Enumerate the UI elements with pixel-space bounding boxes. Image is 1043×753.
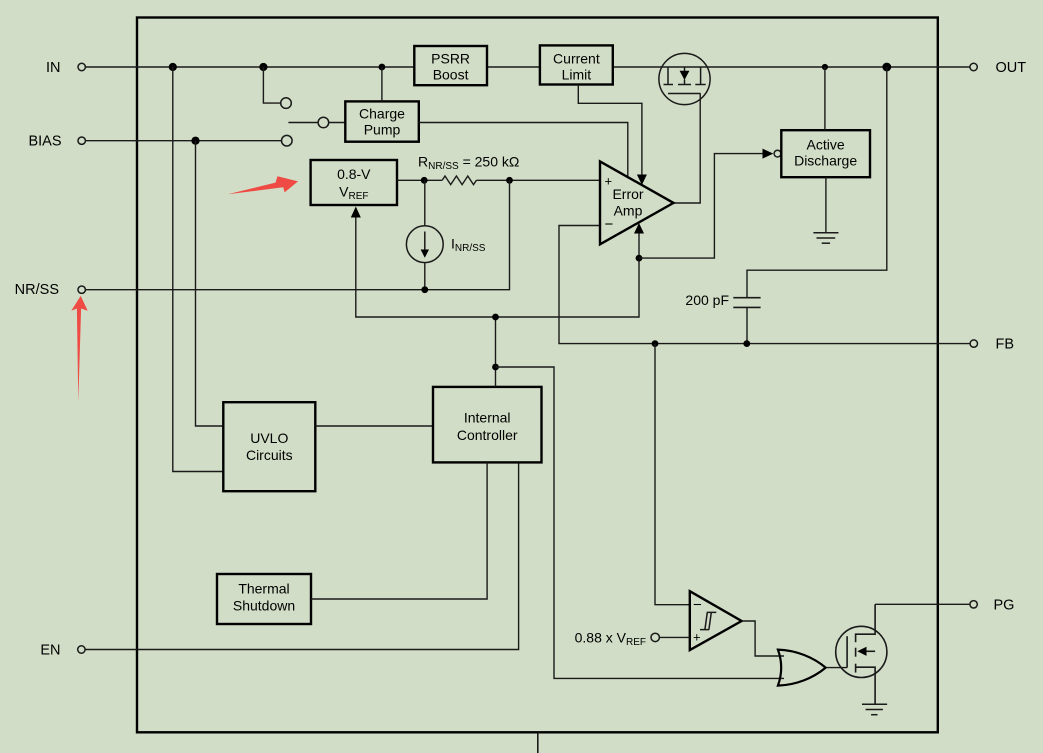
wire comparator output to OR gate [742, 621, 784, 656]
pin NR/SS terminal [78, 286, 85, 293]
switch S1 pole contact [318, 117, 329, 128]
svg-text:Circuits: Circuits [246, 447, 293, 463]
Active Discharge box [781, 130, 870, 177]
wire Current Limit to OUT rail [613, 66, 970, 68]
node junction BIAS/UVLO [191, 137, 199, 145]
svg-text:PG: PG [994, 598, 1015, 614]
svg-text:−: − [605, 216, 614, 233]
Active Discharge input bubble [774, 150, 781, 157]
wire Current Limit to error amp (with arrow) [578, 85, 642, 177]
wire UVLO to Internal Controller [315, 425, 433, 427]
node junction NR/SS / current source [421, 286, 428, 293]
pin EN terminal [78, 646, 85, 653]
svg-text:Internal: Internal [464, 409, 511, 425]
capacitor C1 200 pF [733, 298, 760, 308]
node junction Charge Pump / IN rail [379, 64, 386, 71]
wire resistor right leg down to NR/SS rail [425, 180, 510, 289]
wire comparator + input [659, 636, 689, 638]
svg-text:Error: Error [612, 186, 643, 202]
Current Limit box U4 [540, 45, 613, 84]
OR gate [778, 650, 826, 686]
node junction OUT rail / compensation [882, 63, 891, 72]
svg-text:Discharge: Discharge [794, 152, 857, 168]
wire Charge Pump output to error amp [419, 123, 628, 178]
wire FB down to comparator [655, 344, 690, 605]
wire Active Discharge to ground [825, 177, 827, 232]
wire IN rail (IN pin to PSRR Boost) [86, 66, 415, 68]
pass transistor Q1 (PMOS) [659, 53, 710, 104]
current source INR/SS [406, 180, 443, 289]
wire IN rail to Charge Pump top [381, 67, 383, 101]
IC boundary frame [137, 18, 938, 733]
svg-text:OUT: OUT [996, 60, 1027, 76]
resistor RNR/SS = 250 kOhm [442, 176, 476, 185]
comparator + input terminal [651, 633, 659, 641]
wire Q2 drain to PG pin [875, 603, 970, 605]
pin BIAS terminal [78, 137, 85, 144]
node junction VREF/resistor [421, 177, 428, 184]
wire switch throw from IN [263, 67, 280, 103]
svg-text:Boost: Boost [433, 67, 469, 83]
svg-text:Limit: Limit [562, 67, 592, 83]
Charge Pump box U5 [345, 101, 419, 141]
node junction IN/UVLO [169, 63, 177, 71]
svg-text:Charge: Charge [359, 106, 405, 122]
pin OUT terminal [970, 63, 977, 70]
svg-text:INR/SS: INR/SS [451, 236, 486, 255]
node junction OUT rail / Active Discharge [822, 64, 828, 70]
pin IN terminal [78, 63, 85, 70]
arrowhead into VREF bottom [351, 207, 361, 218]
svg-text:EN: EN [40, 643, 60, 659]
wire OUT rail to 200pF cap [747, 67, 887, 298]
Internal Controller box [433, 387, 542, 463]
wire controller node to OR gate [496, 367, 785, 678]
arrowhead into error amp bottom [634, 223, 644, 234]
pin FB terminal [970, 340, 977, 347]
wire EN to Internal Controller [86, 462, 519, 649]
PG transistor Q2 (NMOS) [836, 604, 887, 704]
node junction controller/OR branch [492, 364, 499, 371]
svg-text:200 pF: 200 pF [685, 292, 729, 308]
wire error amp output to Q1 gate [674, 94, 701, 204]
wire Thermal Shutdown to Internal Controller [311, 462, 487, 599]
arrowhead into error amp top [637, 175, 647, 186]
svg-text:0.8-V: 0.8-V [337, 166, 371, 182]
wire NR/SS rail [86, 289, 425, 291]
wire BIAS rail [86, 140, 282, 142]
svg-text:PSRR: PSRR [431, 51, 470, 67]
svg-text:+: + [605, 174, 613, 189]
ground symbol below Q2 [862, 704, 887, 714]
wire cap to FB line [746, 307, 748, 343]
wire PSRR Boost to Current Limit [487, 66, 540, 68]
error amp U1 [600, 161, 674, 244]
svg-text:Amp: Amp [614, 202, 643, 218]
node junction resistor/NRSS [506, 177, 513, 184]
svg-text:IN: IN [46, 60, 61, 76]
svg-text:BIAS: BIAS [28, 134, 61, 150]
switch S1 throw contact (BIAS side) [282, 135, 293, 146]
wire switch pole to Charge Pump [329, 122, 346, 124]
wire VREF output [397, 179, 442, 181]
Thermal Shutdown box [217, 574, 311, 624]
svg-text:VREF: VREF [339, 184, 368, 203]
wire VREF bottom feedback [356, 216, 639, 317]
wire OUT rail to Active Discharge top [824, 67, 826, 130]
red annotation arrow pointing at NR/SS pin [71, 296, 87, 402]
0.8-V VREF reference box [311, 160, 397, 205]
svg-text:RNR/SS = 250 kΩ: RNR/SS = 250 kΩ [418, 154, 519, 173]
svg-text:FB: FB [996, 337, 1015, 353]
pin GND stub at bottom [537, 733, 539, 753]
svg-text:−: − [693, 597, 702, 614]
wire IN to UVLO [173, 67, 224, 472]
svg-text:Thermal: Thermal [238, 581, 289, 597]
arrowhead into Active Discharge bubble [763, 149, 774, 159]
svg-text:Controller: Controller [457, 427, 518, 443]
red annotation arrow pointing at VREF box [228, 176, 298, 194]
wire resistor to error amp + input [476, 179, 600, 181]
svg-text:Current: Current [553, 51, 600, 67]
node junction NR/SS net / controller [492, 314, 499, 321]
svg-text:NR/SS: NR/SS [15, 282, 59, 298]
ground symbol below Active Discharge [813, 233, 838, 243]
pin PG terminal [970, 601, 977, 608]
wire center node down to controller [495, 317, 497, 387]
wire FB line [559, 226, 970, 344]
PSRR Boost box U3 [414, 46, 487, 85]
wire BIAS to UVLO [196, 141, 224, 426]
node junction IN/switch [259, 63, 267, 71]
switch S1 throw contact (IN side) [281, 98, 292, 109]
wire node to Active Discharge [639, 154, 763, 259]
node junction error amp feedback [636, 255, 643, 262]
switch S1 lever [288, 122, 318, 124]
svg-text:Active: Active [807, 136, 845, 152]
svg-text:0.88 x VREF: 0.88 x VREF [575, 630, 646, 649]
UVLO Circuits box [223, 402, 315, 491]
node junction FB/comparator [652, 340, 659, 347]
svg-text:+: + [693, 630, 701, 645]
svg-text:Shutdown: Shutdown [233, 598, 295, 614]
wire OR gate output to Q2 gate [826, 667, 847, 669]
comparator U2 (power good) [690, 591, 742, 650]
svg-text:Pump: Pump [364, 122, 401, 138]
node junction cap/FB [743, 340, 750, 347]
wire error amp lower input arrow from node [638, 232, 640, 258]
hysteresis symbol inside comparator [700, 612, 716, 629]
svg-text:UVLO: UVLO [250, 430, 288, 446]
